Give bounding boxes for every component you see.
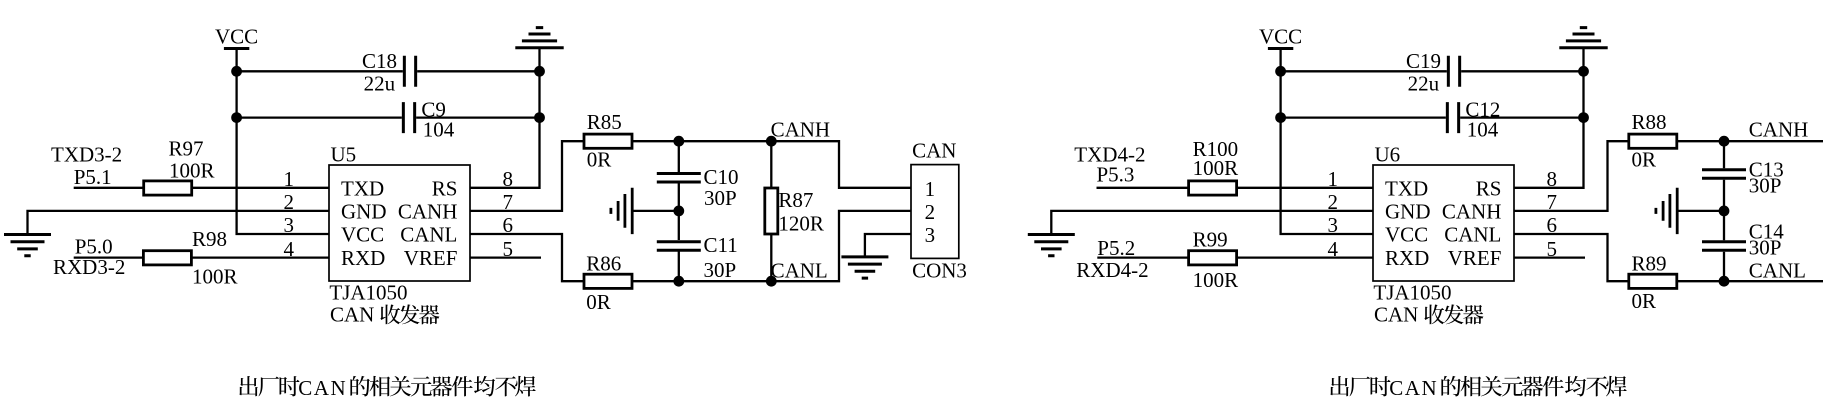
wire CANH net to connector pin 1 bbox=[632, 141, 911, 188]
svg-text:RXD4-2: RXD4-2 bbox=[1076, 258, 1148, 282]
junction CANL / C14 bbox=[1719, 276, 1730, 287]
note text (left): 出厂时CAN的相关元器件均不焊 bbox=[239, 376, 536, 400]
svg-text:100R: 100R bbox=[1193, 268, 1239, 292]
svg-text:CANH: CANH bbox=[1442, 199, 1502, 223]
svg-text:0R: 0R bbox=[1632, 148, 1657, 172]
wire CANL net to connector pin 2 bbox=[632, 211, 911, 281]
svg-text:CANH: CANH bbox=[398, 199, 458, 223]
wire pin 5 (VREF) stub bbox=[470, 256, 541, 258]
junction earth / C18 bbox=[534, 66, 545, 77]
svg-text:C11: C11 bbox=[704, 233, 738, 257]
svg-text:8: 8 bbox=[1547, 167, 1558, 191]
svg-text:2: 2 bbox=[925, 200, 936, 224]
signal ground (rotated) bbox=[1656, 188, 1677, 234]
svg-text:GND: GND bbox=[1385, 199, 1431, 223]
pin numbers U5 right (8 7 6 5) bbox=[503, 167, 514, 261]
wire pin 7 (CANH) up to R88 bbox=[1514, 141, 1629, 211]
capacitor capacitor C12 bbox=[1447, 97, 1500, 141]
svg-text:104: 104 bbox=[1467, 117, 1499, 141]
svg-text:C18: C18 bbox=[362, 49, 397, 73]
net label CANH bbox=[1749, 118, 1809, 142]
capacitor C11 30P bbox=[657, 233, 738, 282]
svg-text:0R: 0R bbox=[1632, 289, 1657, 313]
svg-text:R87: R87 bbox=[778, 188, 813, 212]
junction VCC / C19 bbox=[1275, 66, 1286, 77]
svg-text:1: 1 bbox=[284, 167, 295, 191]
earth ground (top) bbox=[1559, 28, 1607, 48]
capacitor capacitor C19 bbox=[1406, 49, 1460, 96]
wire pin 6 (CANL) down to R89 bbox=[1514, 234, 1629, 281]
svg-text:1: 1 bbox=[1328, 167, 1339, 191]
svg-text:VCC: VCC bbox=[215, 24, 258, 48]
wire midpoint to ground bbox=[1679, 210, 1725, 212]
junction VCC / C18 bbox=[231, 66, 242, 77]
svg-text:100R: 100R bbox=[1193, 156, 1239, 180]
resistor R97 100R bbox=[144, 136, 215, 195]
wire pin 1 (TXD) from P5.1 bbox=[74, 187, 329, 189]
resistor R89 0R bbox=[1629, 252, 1677, 313]
junction VCC / C9 bbox=[231, 112, 242, 123]
termination resistor R87 120R bbox=[765, 141, 824, 281]
wire pin 2 (GND) to ground bbox=[28, 211, 330, 235]
wire CANH net to edge bbox=[1677, 140, 1823, 142]
svg-text:CANH: CANH bbox=[771, 118, 831, 142]
signal ground (left) bbox=[4, 235, 51, 256]
svg-text:CANL: CANL bbox=[400, 223, 457, 247]
junction VCC / C12 bbox=[1275, 112, 1286, 123]
svg-text:RXD: RXD bbox=[341, 246, 385, 270]
node P5.2 / RXD4-2 bbox=[1076, 236, 1148, 282]
svg-text:CAN: CAN bbox=[1374, 303, 1418, 327]
wire pin 4 (RXD) from P5.2 bbox=[1097, 256, 1373, 258]
svg-text:100R: 100R bbox=[169, 158, 215, 182]
wire second decoupling rail bbox=[1281, 116, 1584, 118]
resistor R85 0R bbox=[584, 110, 632, 172]
capacitor capacitor C18 bbox=[362, 49, 416, 96]
svg-text:TJA1050: TJA1050 bbox=[1373, 281, 1451, 305]
svg-text:3: 3 bbox=[1328, 213, 1339, 237]
wire filter-capacitor chain bbox=[1723, 141, 1725, 281]
svg-text:R89: R89 bbox=[1632, 252, 1667, 276]
wire connector pin 3 to ground bbox=[865, 234, 911, 257]
power flag VCC bbox=[1259, 24, 1302, 48]
svg-text:2: 2 bbox=[284, 190, 295, 214]
wire pin 5 (VREF) stub bbox=[1514, 256, 1585, 258]
resistor R86 0R bbox=[584, 252, 632, 314]
wire filter-capacitor chain bbox=[678, 141, 680, 281]
svg-text:0R: 0R bbox=[587, 148, 612, 172]
resistor R98 100R bbox=[143, 227, 237, 289]
svg-text:TXD: TXD bbox=[1385, 176, 1428, 200]
wire VCC rail down to pin 3 (VCC) bbox=[237, 49, 329, 235]
svg-text:TXD: TXD bbox=[341, 176, 384, 200]
svg-text:4: 4 bbox=[1328, 237, 1339, 261]
svg-text:30P: 30P bbox=[704, 258, 737, 282]
wire VCC rail down to pin 3 (VCC) bbox=[1281, 49, 1373, 235]
svg-text:30P: 30P bbox=[704, 186, 737, 210]
resistor R88 0R bbox=[1629, 110, 1677, 172]
capacitor C10 30P bbox=[657, 165, 739, 210]
wire earth stem down to pin 8 (RS) bbox=[470, 48, 540, 188]
node P5.0 / RXD3-2 bbox=[53, 234, 125, 279]
svg-text:30P: 30P bbox=[1749, 236, 1782, 260]
svg-text:CANH: CANH bbox=[1749, 118, 1809, 142]
power flag VCC bbox=[215, 24, 258, 48]
svg-text:CAN: CAN bbox=[330, 303, 374, 327]
svg-text:C19: C19 bbox=[1406, 49, 1441, 73]
svg-text:3: 3 bbox=[925, 223, 936, 247]
svg-text:22u: 22u bbox=[1408, 72, 1440, 96]
node TXD4-2 / P5.3 bbox=[1074, 142, 1145, 186]
signal ground (connector) bbox=[841, 257, 888, 278]
svg-text:CANL: CANL bbox=[1749, 259, 1806, 283]
connector CON3 (CAN) bbox=[911, 139, 967, 283]
svg-text:RS: RS bbox=[1476, 176, 1502, 200]
svg-text:30P: 30P bbox=[1749, 174, 1782, 198]
svg-text:R98: R98 bbox=[192, 227, 227, 251]
resistor R100 100R bbox=[1189, 137, 1239, 195]
net label CANL bbox=[1749, 259, 1806, 283]
pin numbers U6 right (8 7 6 5) bbox=[1547, 167, 1558, 261]
wire top decoupling rail bbox=[237, 70, 540, 72]
svg-text:R85: R85 bbox=[587, 110, 622, 134]
svg-text:1: 1 bbox=[925, 177, 936, 201]
svg-text:P5.1: P5.1 bbox=[74, 165, 112, 189]
svg-text:3: 3 bbox=[284, 213, 295, 237]
wire earth stem down to pin 8 (RS) bbox=[1514, 48, 1584, 188]
svg-text:CON3: CON3 bbox=[912, 258, 967, 282]
transceiver IC U5 TJA1050 bbox=[329, 143, 470, 327]
svg-text:GND: GND bbox=[341, 199, 387, 223]
signal ground (middle, rotated) bbox=[611, 188, 632, 234]
svg-text:VCC: VCC bbox=[1259, 24, 1302, 48]
svg-text:CAN: CAN bbox=[298, 376, 347, 400]
junction CANH / C13 bbox=[1719, 136, 1730, 147]
svg-text:VREF: VREF bbox=[404, 246, 458, 270]
svg-text:TXD3-2: TXD3-2 bbox=[51, 142, 122, 166]
svg-text:R86: R86 bbox=[586, 252, 621, 276]
svg-text:104: 104 bbox=[423, 117, 455, 141]
svg-text:120R: 120R bbox=[778, 212, 824, 236]
svg-text:R99: R99 bbox=[1193, 228, 1228, 252]
svg-text:TJA1050: TJA1050 bbox=[329, 281, 407, 305]
svg-text:VCC: VCC bbox=[341, 223, 384, 247]
svg-text:R97: R97 bbox=[169, 136, 204, 160]
svg-text:CANL: CANL bbox=[771, 259, 828, 283]
capacitor C14 30P bbox=[1702, 220, 1784, 260]
pin numbers U5 left (1 2 3 4) bbox=[284, 167, 295, 261]
svg-text:22u: 22u bbox=[364, 72, 396, 96]
wire pin 4 (RXD) from P5.0 bbox=[74, 256, 329, 258]
signal ground (left of U6) bbox=[1028, 235, 1075, 256]
svg-text:U5: U5 bbox=[331, 143, 357, 167]
svg-text:R88: R88 bbox=[1632, 110, 1667, 134]
junction earth / C12 bbox=[1578, 112, 1589, 123]
pin numbers U6 left (1 2 3 4) bbox=[1328, 167, 1339, 261]
wire pin 1 (TXD) from P5.3 bbox=[1097, 187, 1374, 189]
net label CANH bbox=[771, 118, 831, 142]
wire pin 2 (GND) to ground bbox=[1051, 211, 1373, 235]
capacitor capacitor C9 bbox=[403, 97, 454, 141]
svg-text:4: 4 bbox=[284, 237, 295, 261]
junction earth / C9 bbox=[534, 112, 545, 123]
svg-text:P5.3: P5.3 bbox=[1097, 162, 1135, 186]
svg-text:CAN: CAN bbox=[912, 139, 956, 163]
capacitor C13 30P bbox=[1702, 158, 1784, 198]
junction CANH / R87 bbox=[766, 136, 777, 147]
svg-text:RXD: RXD bbox=[1385, 246, 1429, 270]
resistor R99 100R bbox=[1189, 228, 1239, 293]
svg-text:8: 8 bbox=[503, 167, 514, 191]
note text (right): 出厂时CAN的相关元器件均不焊 bbox=[1330, 376, 1627, 400]
svg-text:CAN: CAN bbox=[1389, 376, 1438, 400]
svg-text:0R: 0R bbox=[586, 290, 611, 314]
wire pin 6 (CANL) down to R86 bbox=[470, 234, 584, 281]
junction CANL / R87 bbox=[766, 276, 777, 287]
wire CANL net to edge bbox=[1677, 280, 1823, 282]
junction CANH / C10 bbox=[673, 136, 684, 147]
svg-text:2: 2 bbox=[1328, 190, 1339, 214]
junction C10 / C11 midpoint bbox=[673, 206, 684, 217]
svg-text:U6: U6 bbox=[1375, 143, 1401, 167]
svg-text:VREF: VREF bbox=[1448, 246, 1502, 270]
junction earth / C19 bbox=[1578, 66, 1589, 77]
svg-text:RS: RS bbox=[432, 176, 458, 200]
wire midpoint to ground bbox=[634, 210, 679, 212]
net label CANL bbox=[771, 259, 828, 283]
junction C13 / C14 midpoint bbox=[1719, 206, 1730, 217]
svg-text:CANL: CANL bbox=[1444, 223, 1501, 247]
transceiver IC U6 TJA1050 bbox=[1373, 143, 1514, 327]
svg-text:P5.2: P5.2 bbox=[1097, 236, 1135, 260]
svg-text:VCC: VCC bbox=[1385, 223, 1428, 247]
junction CANL / C11 bbox=[673, 276, 684, 287]
wire top decoupling rail bbox=[1281, 70, 1584, 72]
node TXD3-2 / P5.1 bbox=[51, 142, 122, 189]
wire pin 7 (CANH) up to R85 bbox=[470, 141, 584, 211]
earth ground (top) bbox=[515, 28, 563, 48]
svg-text:100R: 100R bbox=[192, 265, 238, 289]
wire second decoupling rail bbox=[237, 116, 540, 118]
